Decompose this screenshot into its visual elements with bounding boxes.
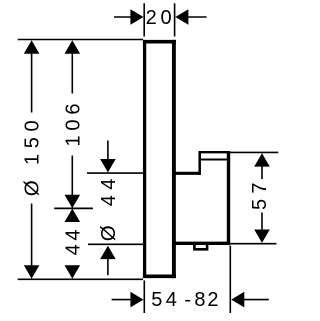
handle step top edge [199, 151, 230, 153]
dim 20 arrow left [114, 16, 131, 18]
svg-text:44: 44 [62, 226, 84, 256]
svg-text:20: 20 [146, 7, 176, 29]
handle block top edge [175, 172, 201, 175]
dim 57 top arrow [254, 153, 270, 166]
handle right edge [227, 151, 230, 245]
plate body (side view) [145, 42, 174, 277]
svg-text:Ø: Ø [97, 225, 120, 241]
dim 54-82 arrow left [112, 299, 131, 301]
dim 20 ext line right [174, 3, 176, 36]
svg-text:Ø: Ø [21, 180, 44, 196]
handle step left edge [198, 151, 201, 175]
dim d44 ext line bottom [88, 243, 143, 245]
dim 57 ext line top [230, 151, 278, 153]
svg-text:150: 150 [21, 115, 43, 165]
svg-text:106: 106 [62, 99, 84, 147]
dim d44 bottom arrow [100, 246, 116, 259]
dim 54-82 ext line right [229, 246, 231, 314]
dim 20 ext line left [143, 3, 145, 36]
dim 20 arrow right [175, 9, 188, 25]
dim 54-82 ext line left [143, 280, 145, 313]
bottom tab [194, 244, 207, 249]
dim 106 top arrow [65, 40, 81, 53]
dim 57 bottom arrow [261, 213, 263, 230]
svg-text:44: 44 [98, 173, 120, 206]
dim d44 top arrow [107, 141, 109, 160]
handle bottom edge [174, 242, 230, 245]
dim 54-82 arrow right [231, 292, 244, 308]
plate bottom extension line [18, 278, 143, 280]
svg-text:57: 57 [249, 177, 271, 210]
dim 44 left top arrow (bowtie bottom) [65, 209, 81, 222]
dim d44 ext line top [87, 172, 143, 174]
bowtie tick [54, 207, 93, 209]
dim 106 bottom arrow (bowtie top) [71, 156, 73, 196]
dim 57 ext line bottom [230, 243, 276, 245]
dim 150 bottom arrow [31, 204, 33, 266]
dim 150 top arrow [24, 40, 40, 53]
svg-text:54-82: 54-82 [151, 289, 220, 311]
dim 44 left bottom arrow [65, 265, 81, 278]
plate top extension line [18, 39, 143, 41]
handle cap inner line [201, 159, 227, 161]
